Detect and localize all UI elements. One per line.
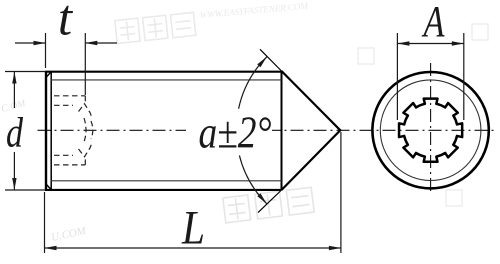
svg-text:a±2°: a±2°	[199, 108, 272, 158]
svg-text:d: d	[6, 111, 24, 157]
svg-text:L: L	[181, 202, 205, 255]
svg-text:WWW.EASYFASTENER.COM: WWW.EASYFASTENER.COM	[199, 1, 308, 20]
svg-text:A: A	[421, 0, 445, 46]
svg-text:t: t	[58, 0, 74, 47]
svg-text:U.COM: U.COM	[50, 225, 88, 244]
